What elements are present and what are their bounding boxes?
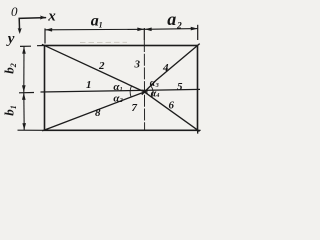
dim arrow at mid tick left side: [137, 28, 144, 32]
dim arrow mid upper: [22, 85, 26, 92]
svg-text:7: 7: [132, 102, 138, 114]
dim arrow bottom end: [22, 123, 26, 130]
top dimension line a1 segment: [45, 28, 145, 31]
svg-text:4: 4: [155, 93, 159, 99]
svg-text:y: y: [6, 31, 15, 47]
corner stub top-left: [37, 45, 45, 47]
ray from bottom-right corner to P: [142, 90, 200, 131]
dim arrow right end: [191, 27, 198, 31]
svg-text:2: 2: [176, 21, 182, 31]
svg-text:0: 0: [11, 4, 18, 19]
y axis arrowhead: [18, 28, 22, 34]
svg-text:5: 5: [177, 81, 183, 93]
svg-text:4: 4: [162, 62, 169, 74]
svg-text:6: 6: [169, 99, 175, 111]
svg-text:1: 1: [86, 79, 92, 91]
svg-text:a: a: [91, 13, 99, 30]
x axis arrowhead: [40, 16, 46, 20]
ray from top-right corner to P: [142, 44, 200, 95]
dim arrow top end: [22, 47, 26, 54]
svg-text:2: 2: [98, 60, 105, 72]
left dimension line b1 segment: [23, 93, 25, 131]
left dimension line b2 segment: [23, 46, 25, 92]
svg-text:3: 3: [134, 59, 141, 71]
svg-text:2: 2: [119, 98, 123, 104]
ray from top-left corner to P: [42, 44, 148, 93]
extension tick at x=197.5: [197, 25, 199, 40]
top dimension line a2 segment: [145, 28, 198, 31]
dim arrow left end: [45, 28, 52, 32]
bottom edge overshoot at BR corner: [198, 129, 201, 131]
vertical center line through P: [143, 40, 145, 130]
coordinate axes corner at origin: [19, 18, 45, 32]
tick at bottom y=130.3 merging into bottom edge: [18, 129, 45, 131]
dim arrow mid lower: [22, 93, 26, 100]
rectangle plate outline: [45, 46, 198, 131]
angle arc left (alpha1 alpha2): [130, 86, 131, 97]
horizontal line through P: [41, 89, 201, 92]
dim arrow at mid tick right side: [145, 28, 152, 32]
right edge overshoot below BR corner: [197, 130, 199, 133]
extension tick at x=144.5: [143, 28, 145, 40]
faint dashed artifact above top edge: [80, 41, 127, 43]
ray from bottom-left corner to P: [42, 91, 148, 131]
angle arc right (alpha3 alpha4): [151, 86, 153, 97]
tick at top y=46.4: [20, 45, 31, 47]
svg-text:1: 1: [99, 20, 103, 29]
svg-text:a: a: [167, 9, 176, 29]
svg-text:8: 8: [95, 107, 101, 119]
tick at mid y=92.6: [19, 92, 34, 94]
svg-text:x: x: [47, 9, 56, 25]
svg-text:1: 1: [120, 87, 123, 93]
extension tick at x=45: [44, 28, 46, 43]
